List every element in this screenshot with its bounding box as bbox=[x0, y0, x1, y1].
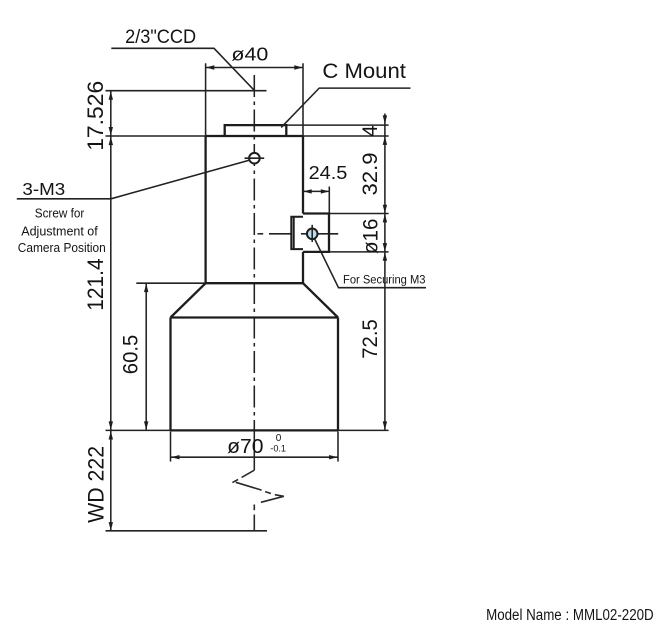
dim 4 outside arrows bbox=[383, 115, 387, 144]
cone section bbox=[171, 283, 339, 317]
centerline vertical (lens optical axis) bbox=[253, 75, 255, 470]
extension line flange top right bbox=[286, 124, 388, 126]
dim 60.5 line and arrows bbox=[144, 284, 148, 430]
extension lines bottom face bbox=[106, 429, 389, 431]
right dimension line vertical bbox=[384, 114, 386, 430]
svg-text:Adjustment of: Adjustment of bbox=[21, 223, 98, 238]
extension lines body top bbox=[106, 135, 389, 137]
svg-text:Model Name : MML02-220D: Model Name : MML02-220D bbox=[486, 607, 654, 624]
svg-text:17.526: 17.526 bbox=[83, 81, 108, 151]
extension lines top (for dim ø40) bbox=[206, 63, 303, 136]
svg-text:C Mount: C Mount bbox=[322, 59, 406, 83]
svg-text:ø70: ø70 bbox=[227, 435, 263, 458]
extension lines boss top / bottom right bbox=[329, 214, 389, 252]
leader C Mount bbox=[281, 88, 410, 127]
svg-text:Camera Position: Camera Position bbox=[18, 240, 106, 255]
3-M3 screw hole circle bbox=[245, 153, 265, 164]
leader 2/3"CCD bbox=[111, 48, 254, 90]
boss horizontal centerline bbox=[258, 233, 339, 235]
boss side plate bbox=[291, 217, 303, 249]
svg-text:2/3"CCD: 2/3"CCD bbox=[125, 26, 196, 48]
extension line 24.5 right bbox=[328, 187, 330, 214]
dim ø16 arrows bbox=[383, 214, 387, 252]
working distance plane line bbox=[106, 530, 268, 532]
dim WD 222 arrows bbox=[109, 431, 113, 531]
dim 72.5 arrows bbox=[383, 252, 387, 430]
leader 3-M3 bbox=[17, 160, 250, 199]
svg-text:3-M3: 3-M3 bbox=[22, 179, 65, 199]
dim 17.526 arrows bbox=[109, 91, 113, 135]
dim line ø40 bbox=[206, 65, 303, 69]
svg-text:32.9: 32.9 bbox=[358, 153, 382, 196]
CCD image plane line bbox=[106, 90, 267, 92]
svg-text:WD 222: WD 222 bbox=[84, 446, 109, 523]
left dimension line vertical bbox=[110, 91, 112, 531]
extension lines ø70 bbox=[171, 432, 339, 462]
dim 32.9 arrows bbox=[383, 205, 387, 214]
securing boss bbox=[303, 214, 329, 252]
svg-text:72.5: 72.5 bbox=[358, 319, 382, 359]
svg-text:-0.1: -0.1 bbox=[270, 443, 286, 454]
wide barrel (ø70) bbox=[171, 318, 339, 431]
svg-text:60.5: 60.5 bbox=[120, 335, 143, 374]
svg-text:ø40: ø40 bbox=[231, 43, 268, 64]
svg-text:ø16: ø16 bbox=[360, 219, 383, 255]
securing screw hole (blue) bbox=[307, 225, 318, 242]
dim 121.4 arrows bbox=[109, 137, 113, 430]
svg-text:4: 4 bbox=[359, 125, 382, 137]
lens body outline (ø40 barrel) bbox=[206, 136, 303, 283]
dim 24.5 line and arrows bbox=[303, 189, 329, 193]
svg-text:Screw for: Screw for bbox=[35, 205, 85, 220]
dim ø70 line and arrows bbox=[171, 455, 338, 459]
leader For Securing M3 bbox=[315, 239, 427, 288]
svg-text:121.4: 121.4 bbox=[83, 258, 108, 310]
extension line shoulder left bbox=[136, 282, 205, 284]
svg-text:For Securing M3: For Securing M3 bbox=[343, 273, 426, 287]
break symbol (WD break zigzag) bbox=[232, 470, 283, 531]
svg-text:0: 0 bbox=[276, 433, 282, 444]
svg-text:24.5: 24.5 bbox=[309, 162, 348, 183]
C mount flange bbox=[225, 125, 287, 136]
